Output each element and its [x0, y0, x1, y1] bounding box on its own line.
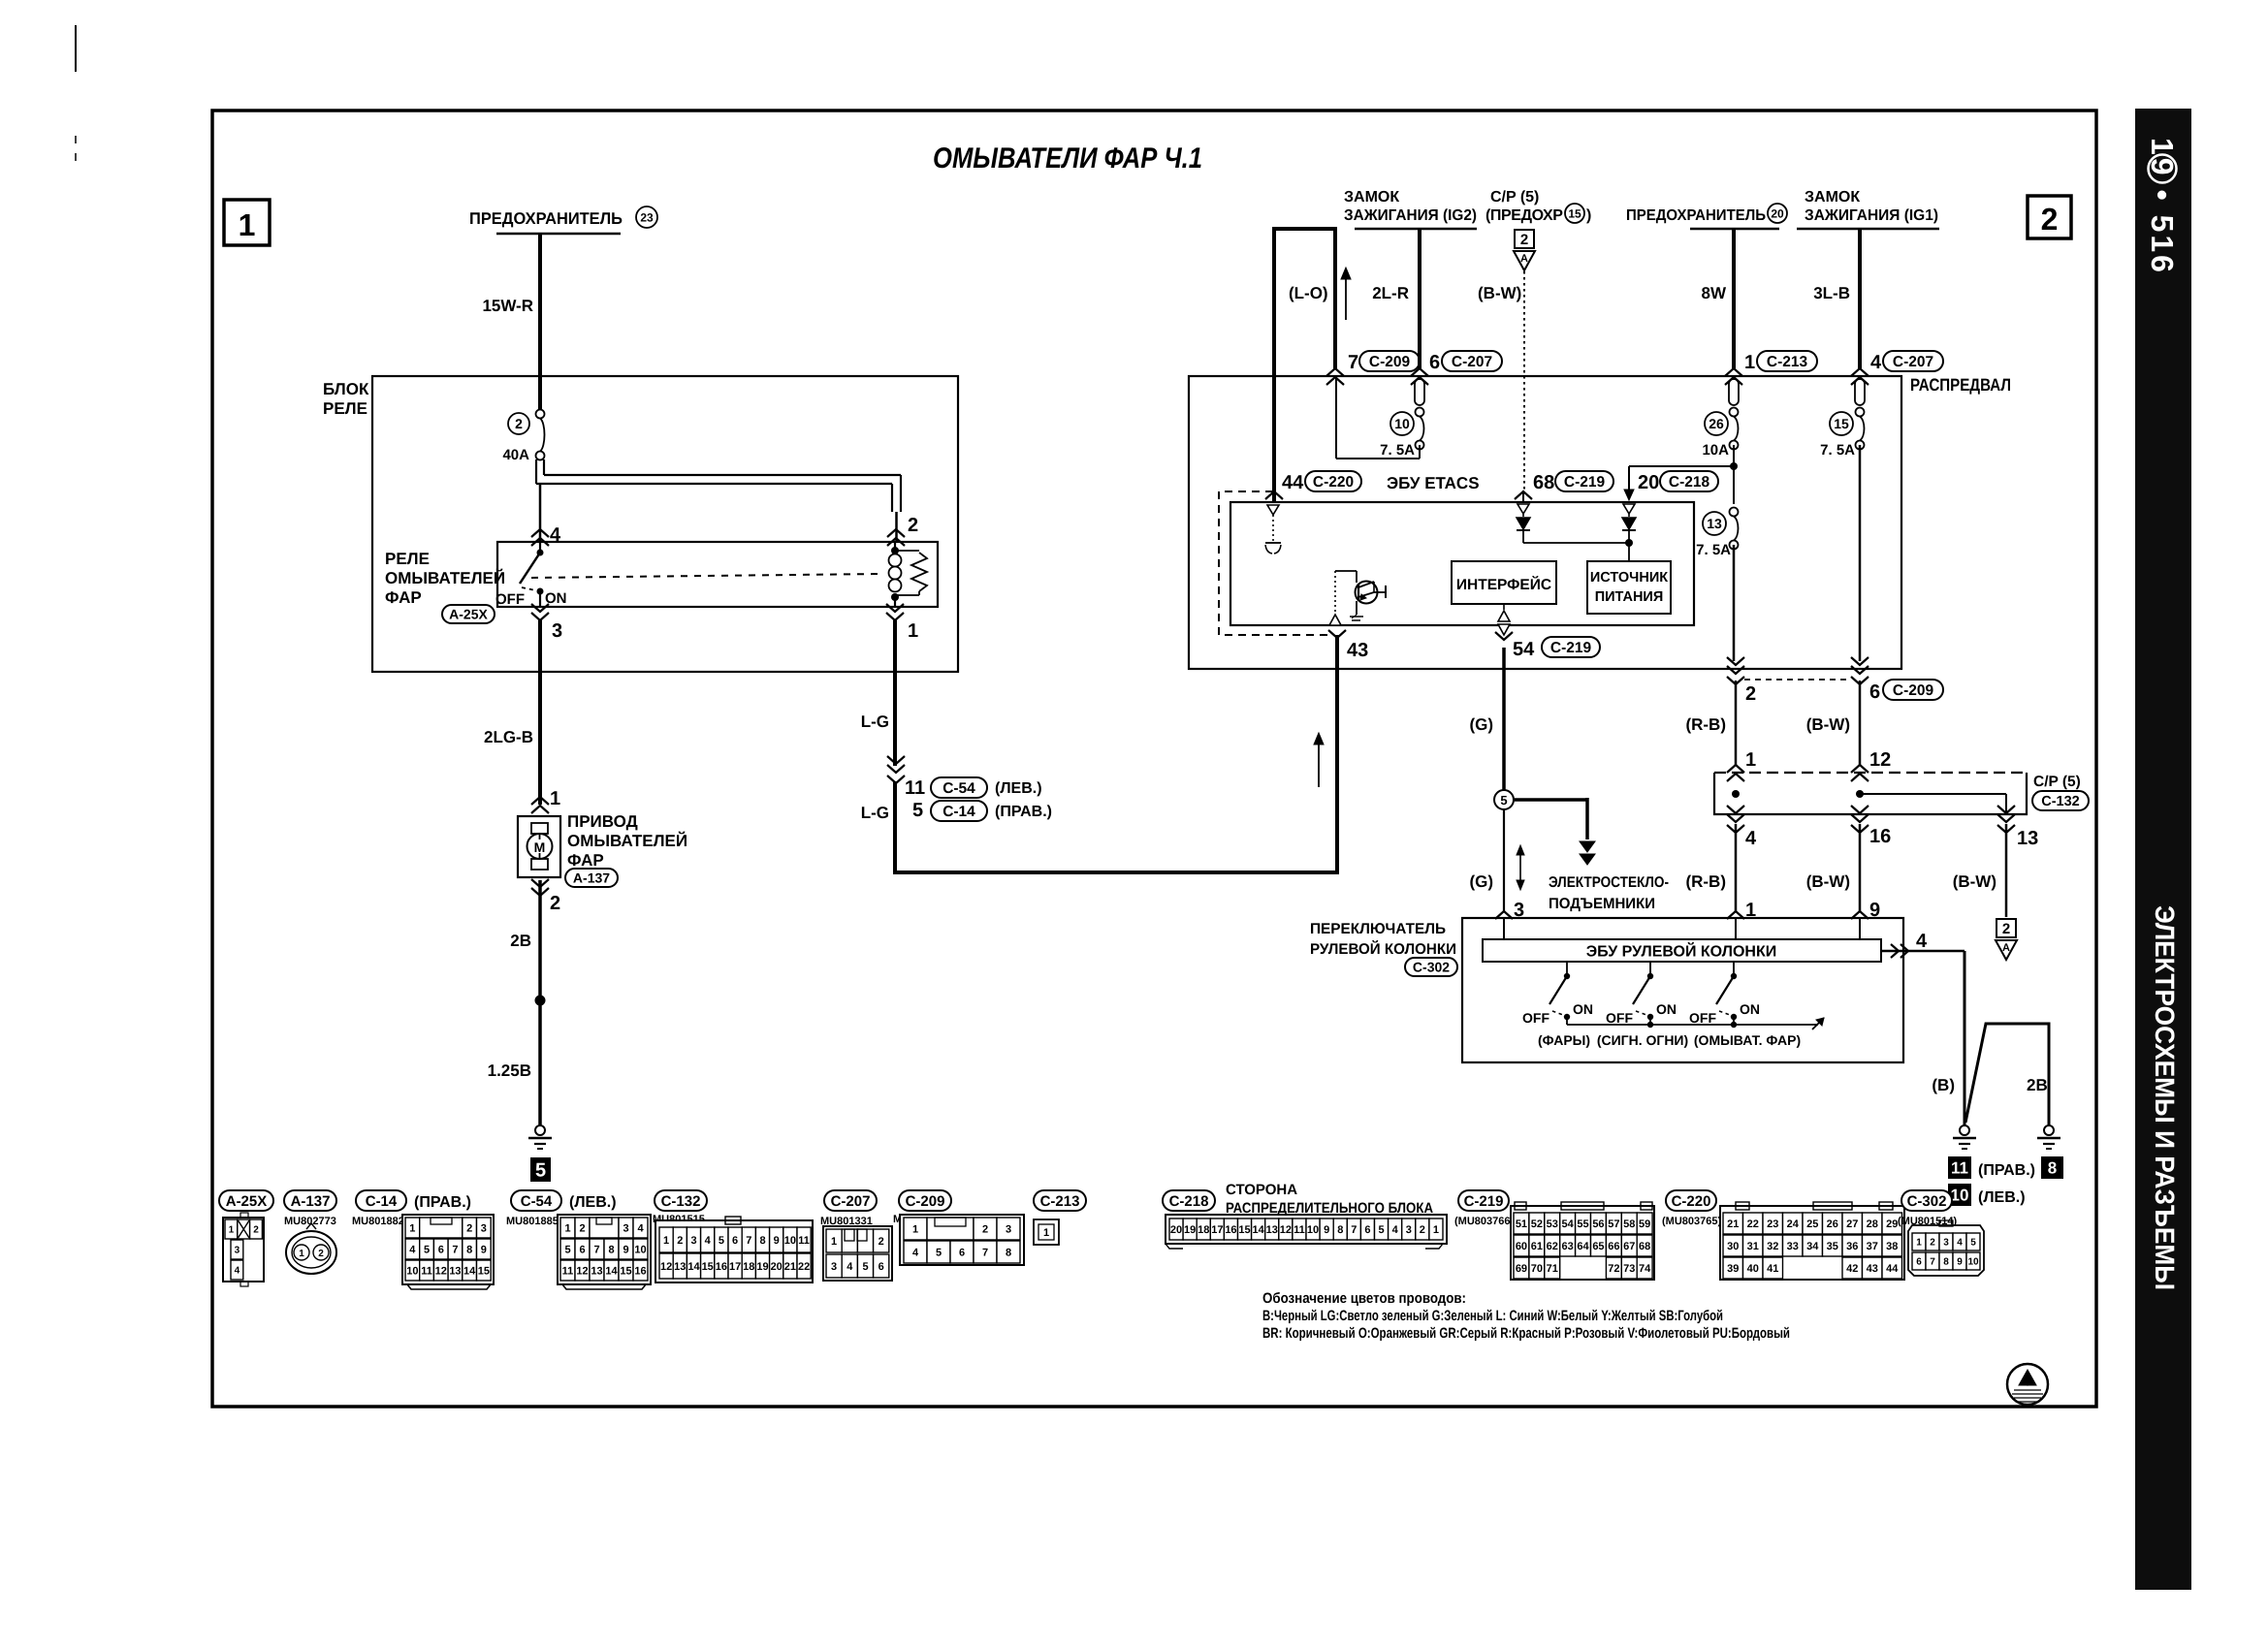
svg-text:3: 3: [1006, 1223, 1011, 1235]
svg-text:ПИТАНИЯ: ПИТАНИЯ: [1595, 589, 1664, 605]
svg-text:(B): (B): [1932, 1076, 1955, 1094]
svg-text:4: 4: [409, 1244, 416, 1255]
sheet number box 1: [224, 200, 270, 245]
svg-text:11: 11: [905, 777, 925, 799]
svg-text:9: 9: [481, 1244, 487, 1255]
ETACS pin 43: [1328, 630, 1368, 661]
svg-text:(СИГН. ОГНИ): (СИГН. ОГНИ): [1597, 1032, 1688, 1048]
svg-text:10: 10: [1967, 1257, 1979, 1268]
legend wire colors: [1262, 1290, 1790, 1342]
connector C-213 label: [1034, 1190, 1086, 1211]
svg-text:3: 3: [690, 1235, 696, 1247]
connector C-302 pinout: [1908, 1220, 1984, 1276]
direction arrow up L-O: [1341, 268, 1351, 320]
svg-text:15: 15: [1834, 416, 1849, 431]
svg-text:29: 29: [1886, 1219, 1898, 1230]
socket capsule 8W: [1729, 379, 1739, 405]
wire L-O hook to pin44: [1274, 229, 1335, 498]
connector C-14 code: [352, 1216, 404, 1227]
svg-text:4: 4: [912, 1247, 919, 1258]
svg-text:3L-B: 3L-B: [1813, 284, 1850, 302]
svg-text:34: 34: [1806, 1241, 1819, 1252]
label C/P 5 ПРЕДОХР 15: [1485, 189, 1591, 224]
svg-text:C-54: C-54: [521, 1193, 553, 1210]
svg-text:(MU803766): (MU803766): [1454, 1216, 1514, 1227]
svg-text:12: 12: [1280, 1224, 1292, 1236]
svg-text:4: 4: [1957, 1238, 1963, 1249]
fuse 2 40A: [502, 410, 544, 464]
svg-text:61: 61: [1531, 1241, 1543, 1252]
relay linkage dashed: [531, 574, 880, 578]
switch common bus: [1567, 1018, 1824, 1029]
svg-text:ON: ON: [1573, 1001, 1593, 1017]
wire 2B bridge: [1965, 1024, 2049, 1125]
wire fuse2 to relay pins doubled feed: [536, 459, 901, 543]
svg-text:BR: Коричневый O:Оранжевый GR:: BR: Коричневый O:Оранжевый GR:Серый R:Кр…: [1262, 1325, 1790, 1342]
svg-text:3: 3: [1406, 1224, 1412, 1236]
sidebar black bar: [2135, 109, 2191, 1590]
node junction 8W branch: [1624, 445, 1738, 504]
wire relay pin3 to motor: [538, 620, 542, 805]
svg-text:C-218: C-218: [1169, 1193, 1209, 1210]
svg-text:РЕЛЕ: РЕЛЕ: [385, 550, 430, 568]
connector C-213 pinout: [1034, 1219, 1059, 1245]
svg-text:6: 6: [579, 1244, 585, 1255]
svg-text:51: 51: [1516, 1219, 1527, 1230]
svg-text:1: 1: [1433, 1224, 1439, 1236]
svg-text:10A: 10A: [1702, 442, 1729, 459]
svg-text:11: 11: [1951, 1159, 1968, 1178]
wire 54 G: [1502, 648, 1506, 791]
switch washer: [1689, 962, 1760, 1026]
svg-text:68: 68: [1639, 1241, 1650, 1252]
svg-text:7: 7: [982, 1247, 988, 1258]
connector A-25X pinout: [223, 1213, 264, 1286]
ETACS input 44 sensor symbol: [1265, 505, 1281, 554]
svg-text:C-209: C-209: [1893, 682, 1934, 699]
svg-text:13: 13: [2017, 828, 2038, 849]
connector C-209 pinout: [900, 1215, 1024, 1265]
svg-text:1: 1: [409, 1222, 415, 1234]
svg-text:18: 18: [1198, 1224, 1209, 1236]
svg-text:C-209: C-209: [906, 1193, 945, 1210]
svg-text:C-132: C-132: [661, 1193, 701, 1210]
wire 3L-B inside box: [1859, 445, 1862, 661]
svg-text:2B: 2B: [510, 932, 531, 950]
relay pin 2: [887, 515, 918, 546]
svg-text:C-132: C-132: [2041, 794, 2080, 809]
svg-text:8: 8: [1337, 1224, 1343, 1236]
svg-text:ПРЕДОХРАНИТЕЛЬ: ПРЕДОХРАНИТЕЛЬ: [1626, 207, 1766, 224]
socket capsule IG1: [1855, 379, 1865, 405]
svg-text:15W-R: 15W-R: [482, 297, 533, 315]
connector A-137 code: [284, 1216, 336, 1227]
pin stubs into ECU: [1504, 918, 1860, 939]
svg-text:РЕЛЕ: РЕЛЕ: [323, 399, 367, 418]
connector C-220 pinout: [1720, 1202, 1904, 1280]
svg-text:OFF: OFF: [1522, 1010, 1549, 1026]
svg-text:17: 17: [729, 1261, 741, 1273]
svg-text:B:Черный LG:Светло зеленый G:З: B:Черный LG:Светло зеленый G:Зеленый L: …: [1262, 1308, 1723, 1324]
wire R-B lower: [1685, 824, 1736, 911]
C-132 pin 4: [1727, 806, 1757, 849]
svg-text:5: 5: [719, 1235, 724, 1247]
svg-text:14: 14: [1253, 1224, 1265, 1236]
svg-text:10: 10: [784, 1235, 796, 1247]
svg-text:3: 3: [235, 1246, 240, 1256]
svg-text:ЗАЖИГАНИЯ (IG1): ЗАЖИГАНИЯ (IG1): [1805, 207, 1938, 224]
svg-text:4: 4: [1870, 352, 1882, 373]
svg-text:MU801885: MU801885: [506, 1216, 559, 1227]
joint connector C-132 box: [1714, 773, 2027, 814]
connector C-219 label: [1458, 1190, 1509, 1211]
svg-text:40A: 40A: [502, 447, 529, 463]
svg-text:63: 63: [1562, 1241, 1574, 1252]
label ЗАМОК ЗАЖИГАНИЯ IG1: [1797, 189, 1939, 229]
svg-text:C-54: C-54: [942, 780, 975, 797]
svg-text:21: 21: [784, 1261, 796, 1273]
svg-text:56: 56: [1592, 1219, 1604, 1230]
label ЭБУ ETACS: [1387, 474, 1480, 492]
svg-text:23: 23: [640, 210, 654, 224]
svg-text:6: 6: [878, 1261, 884, 1273]
svg-text:43: 43: [1347, 640, 1368, 661]
svg-text:8: 8: [608, 1244, 614, 1255]
svg-text:2: 2: [677, 1235, 683, 1247]
svg-text:5: 5: [1500, 793, 1507, 807]
svg-text:66: 66: [1608, 1241, 1619, 1252]
svg-text:A-137: A-137: [573, 870, 610, 886]
left margin scan artifact: [75, 25, 77, 161]
svg-text:OFF: OFF: [1606, 1010, 1633, 1026]
svg-text:5: 5: [1970, 1238, 1976, 1249]
connector C-220 label: [1666, 1190, 1716, 1211]
svg-text:2: 2: [1520, 232, 1528, 248]
inline connector C-54/C-14: [887, 756, 1052, 821]
svg-text:26: 26: [1827, 1219, 1838, 1230]
svg-text:2: 2: [466, 1222, 472, 1234]
label A-25X: [442, 605, 495, 623]
svg-text:(ПРАВ.): (ПРАВ.): [995, 804, 1052, 820]
svg-text:15: 15: [1238, 1224, 1250, 1236]
svg-text:21: 21: [1727, 1219, 1739, 1230]
svg-text:69: 69: [1516, 1263, 1527, 1275]
svg-text:РУЛЕВОЙ КОЛОНКИ: РУЛЕВОЙ КОЛОНКИ: [1310, 939, 1456, 958]
svg-text:ЭЛЕКТРОСХЕМЫ И РАЗЪЕМЫ: ЭЛЕКТРОСХЕМЫ И РАЗЪЕМЫ: [2150, 905, 2180, 1290]
ETACS pin 54 C-219: [1495, 632, 1600, 660]
svg-text:2: 2: [878, 1236, 884, 1248]
svg-text:MU801882: MU801882: [352, 1216, 404, 1227]
svg-text:OFF: OFF: [1689, 1010, 1716, 1026]
fuse 26 10A: [1702, 408, 1738, 459]
svg-text:L-G: L-G: [861, 804, 889, 822]
svg-text:14: 14: [463, 1265, 476, 1277]
label C-302: [1405, 958, 1457, 976]
svg-text:C-209: C-209: [1369, 354, 1411, 370]
svg-text:C-207: C-207: [1452, 354, 1492, 370]
junction splice dot: [535, 996, 546, 1006]
svg-text:): ): [1586, 207, 1591, 224]
svg-text:16: 16: [1869, 826, 1891, 847]
svg-text:19 • 516: 19 • 516: [2145, 138, 2180, 275]
svg-text:1: 1: [1043, 1227, 1049, 1239]
wire 2L-R: [1372, 229, 1420, 368]
connector C-207 pinout: [823, 1226, 892, 1281]
svg-text:5: 5: [1378, 1224, 1384, 1236]
splice circle 5: [1494, 790, 1514, 809]
relay pin 1: [886, 604, 918, 642]
page frame border: [212, 111, 2096, 1407]
wire B to ground: [1932, 951, 1965, 1125]
svg-text:4: 4: [1392, 1224, 1399, 1236]
ground right 11-10: [1953, 1125, 1976, 1149]
label СТОРОНА РАСПРЕДЕЛИТЕЛЬНОГО БЛОКА: [1226, 1182, 1433, 1217]
connector A-137 pinout: [286, 1223, 336, 1274]
svg-text:14: 14: [605, 1265, 618, 1277]
svg-text:19: 19: [756, 1261, 768, 1273]
connector C-132 label: [655, 1190, 707, 1211]
connector C-218 label: [1163, 1190, 1215, 1211]
svg-text:31: 31: [1747, 1241, 1759, 1252]
svg-text:ОМЫВАТЕЛЕЙ: ОМЫВАТЕЛЕЙ: [385, 568, 505, 587]
svg-text:C-302: C-302: [1413, 960, 1450, 975]
svg-text:ФАР: ФАР: [567, 851, 604, 870]
dashed link C-209: [1744, 679, 1851, 681]
svg-text:ПРЕДОХРАНИТЕЛЬ: ПРЕДОХРАНИТЕЛЬ: [469, 209, 623, 228]
svg-text:5: 5: [535, 1160, 546, 1182]
svg-text:10: 10: [406, 1265, 418, 1277]
svg-text:10: 10: [1951, 1187, 1969, 1205]
svg-text:2L-R: 2L-R: [1372, 284, 1409, 302]
wire 2B to ground: [510, 880, 540, 1125]
column switch pin 1: [1727, 900, 1756, 921]
label ЭЛЕКТРОСТЕКЛОПОДЪЕМНИКИ: [1549, 874, 1669, 912]
svg-text:26: 26: [1709, 416, 1724, 431]
svg-text:ЗАМОК: ЗАМОК: [1805, 189, 1860, 206]
svg-text:15: 15: [478, 1265, 490, 1277]
svg-text:(ПРАВ.): (ПРАВ.): [414, 1194, 471, 1211]
sidebar page number 19-516: [2145, 138, 2180, 275]
switch headlights: [1522, 962, 1593, 1026]
svg-text:5: 5: [424, 1244, 430, 1255]
svg-text:37: 37: [1867, 1241, 1878, 1252]
svg-text:СТОРОНА: СТОРОНА: [1226, 1182, 1297, 1198]
ETACS solid box: [1230, 502, 1694, 625]
svg-text:1: 1: [912, 1223, 918, 1235]
svg-text:4: 4: [705, 1235, 712, 1247]
svg-text:16: 16: [716, 1261, 727, 1273]
wire 8W below fuse13: [1733, 545, 1736, 661]
svg-text:41: 41: [1767, 1263, 1778, 1275]
column switch pin 9: [1851, 900, 1880, 921]
svg-text:20: 20: [771, 1261, 783, 1273]
connector C-54 label: [511, 1190, 617, 1211]
svg-text:1: 1: [831, 1236, 837, 1248]
svg-text:1: 1: [1916, 1238, 1922, 1249]
svg-text:A-25X: A-25X: [226, 1193, 268, 1210]
svg-text:72: 72: [1608, 1263, 1619, 1275]
svg-text:12: 12: [576, 1265, 588, 1277]
label fuse ПРЕДОХРАНИТЕЛЬ 23: [469, 206, 657, 234]
fuse 10 7.5A: [1380, 408, 1423, 459]
svg-text:1: 1: [239, 207, 256, 242]
svg-text:10: 10: [1307, 1224, 1319, 1236]
svg-text:7. 5A: 7. 5A: [1820, 442, 1855, 459]
connector C-207 label: [824, 1190, 877, 1211]
svg-text:68: 68: [1533, 472, 1554, 493]
interface box ИНТЕРФЕЙС: [1452, 561, 1556, 604]
relay block БЛОК РЕЛЕ box: [323, 376, 958, 672]
svg-text:(B-W): (B-W): [1953, 872, 1996, 891]
svg-text:2: 2: [1930, 1238, 1935, 1249]
svg-text:ЭЛЕКТРОСТЕКЛО-: ЭЛЕКТРОСТЕКЛО-: [1549, 874, 1669, 891]
svg-text:43: 43: [1867, 1263, 1878, 1275]
svg-text:(ПРАВ.): (ПРАВ.): [1978, 1162, 2035, 1179]
wire fuse10 to pin7: [1336, 378, 1420, 459]
svg-text:7: 7: [1930, 1257, 1935, 1268]
connector A-137 label: [284, 1190, 336, 1211]
svg-text:7. 5A: 7. 5A: [1696, 542, 1731, 558]
svg-text:7: 7: [452, 1244, 458, 1255]
svg-text:1: 1: [550, 788, 560, 809]
connector C-218 pinout: [1166, 1215, 1447, 1249]
svg-text:8: 8: [466, 1244, 472, 1255]
svg-text:64: 64: [1577, 1241, 1589, 1252]
svg-text:5: 5: [862, 1261, 868, 1273]
svg-text:3: 3: [831, 1261, 837, 1273]
svg-text:8: 8: [1943, 1257, 1949, 1268]
C-132 pin 12: [1851, 749, 1891, 781]
svg-text:(ЛЕВ.): (ЛЕВ.): [1978, 1189, 2026, 1206]
svg-text:5: 5: [912, 800, 923, 821]
connector A-25X label: [219, 1190, 273, 1211]
svg-text:24: 24: [1787, 1219, 1800, 1230]
fuse 13 7.5A: [1696, 508, 1738, 559]
svg-text:L-G: L-G: [861, 712, 889, 731]
svg-text:6: 6: [732, 1235, 738, 1247]
svg-text:ЗАЖИГАНИЯ (IG2): ЗАЖИГАНИЯ (IG2): [1344, 207, 1477, 224]
connector C-219 pinout: [1511, 1202, 1654, 1280]
relay A-25X box: [497, 542, 938, 607]
svg-text:6: 6: [438, 1244, 444, 1255]
svg-text:42: 42: [1846, 1263, 1858, 1275]
svg-text:C/P (5): C/P (5): [1490, 189, 1539, 206]
svg-text:2: 2: [318, 1249, 324, 1259]
connector C-207 code: [820, 1216, 873, 1227]
C-132 pin 16: [1851, 806, 1891, 847]
svg-text:40: 40: [1747, 1263, 1759, 1275]
svg-text:32: 32: [1767, 1241, 1778, 1252]
svg-text:1: 1: [299, 1249, 304, 1259]
connector C-54 pinout: [558, 1215, 651, 1289]
connector C-14 pinout: [402, 1215, 494, 1289]
svg-text:28: 28: [1867, 1219, 1878, 1230]
connector pin 1 C-213: [1725, 351, 1817, 385]
ground number 11: [1948, 1156, 2035, 1179]
svg-text:13: 13: [449, 1265, 461, 1277]
svg-text:C-213: C-213: [1767, 354, 1808, 370]
svg-text:70: 70: [1531, 1263, 1543, 1275]
svg-text:3: 3: [623, 1222, 628, 1234]
svg-text:C-207: C-207: [1893, 354, 1933, 370]
svg-text:7. 5A: 7. 5A: [1380, 442, 1415, 459]
svg-text:67: 67: [1623, 1241, 1635, 1252]
svg-text:(R-B): (R-B): [1685, 715, 1726, 734]
svg-text:(ФАРЫ): (ФАРЫ): [1538, 1032, 1590, 1048]
direction arrow updown: [1517, 845, 1524, 890]
svg-text:12: 12: [1869, 749, 1891, 771]
svg-text:(B-W): (B-W): [1478, 284, 1521, 302]
offpage connector 2A bottom: [1996, 919, 2017, 960]
svg-text:53: 53: [1547, 1219, 1558, 1230]
svg-text:2: 2: [1420, 1224, 1425, 1236]
svg-text:3: 3: [1943, 1238, 1949, 1249]
wire 44 to ETACS: [1272, 378, 1276, 502]
title ОМЫВАТЕЛИ ФАР Ч.1: [933, 142, 1202, 174]
svg-text:38: 38: [1886, 1241, 1898, 1252]
svg-text:(ОМЫВАТ. ФАР): (ОМЫВАТ. ФАР): [1694, 1032, 1801, 1048]
relay pin 3: [531, 604, 562, 642]
junction block pin 6 C-209: [1851, 657, 1943, 703]
label ПРИВОД ОМЫВАТЕЛЕЙ ФАР: [567, 812, 687, 870]
power source box ИСТОЧНИК ПИТАНИЯ: [1587, 561, 1671, 614]
svg-text:12: 12: [435, 1265, 447, 1277]
svg-text:C-14: C-14: [366, 1193, 398, 1210]
svg-text:1: 1: [229, 1225, 235, 1236]
svg-text:(G): (G): [1469, 872, 1493, 891]
svg-text:1.25B: 1.25B: [488, 1061, 531, 1080]
svg-text:55: 55: [1577, 1219, 1588, 1230]
connector C-302 label bottom: [1901, 1190, 1952, 1211]
svg-text:C-14: C-14: [942, 804, 975, 820]
svg-text:10: 10: [1394, 416, 1410, 431]
svg-text:20: 20: [1170, 1224, 1182, 1236]
C-132 internal joints: [1732, 790, 2006, 814]
label РЕЛЕ ОМЫВАТЕЛЕЙ ФАР: [385, 550, 505, 607]
svg-text:M: M: [534, 839, 546, 855]
svg-text:A-25X: A-25X: [449, 607, 488, 622]
connector C-220 code: [1662, 1216, 1721, 1227]
connector C-209 code: [893, 1214, 945, 1225]
svg-text:15: 15: [620, 1265, 631, 1277]
svg-text:ЗАМОК: ЗАМОК: [1344, 189, 1399, 206]
wire 1.25B label: [488, 1061, 531, 1080]
svg-text:(MU803765): (MU803765): [1662, 1216, 1721, 1227]
svg-text:(B-W): (B-W): [1806, 715, 1850, 734]
svg-text:(L-O): (L-O): [1289, 284, 1328, 302]
wire B-W dotted: [1478, 271, 1524, 491]
publisher logo: [2007, 1364, 2048, 1405]
svg-text:C-220: C-220: [1672, 1193, 1711, 1210]
label L-G lower: [861, 804, 889, 822]
ground number 10: [1948, 1184, 2026, 1206]
sidebar section title ЭЛЕКТРОСХЕМЫ И РАЗЪЕМЫ: [2150, 905, 2180, 1290]
svg-text:ОМЫВАТЕЛЕЙ: ОМЫВАТЕЛЕЙ: [567, 831, 687, 850]
svg-text:A: A: [1520, 253, 1528, 265]
svg-text:39: 39: [1727, 1263, 1739, 1275]
ETACS pin 68 entry: [1515, 491, 1532, 502]
svg-text:17: 17: [1211, 1224, 1223, 1236]
svg-text:4: 4: [235, 1266, 240, 1277]
svg-text:11: 11: [1294, 1224, 1305, 1236]
label ПЕРЕКЛЮЧАТЕЛЬ РУЛЕВОЙ КОЛОНКИ: [1310, 921, 1456, 958]
wire L-G to ETACS 43: [893, 635, 1339, 872]
svg-text:33: 33: [1787, 1241, 1799, 1252]
ground 8: [2037, 1125, 2060, 1149]
wire 2LG-B label: [484, 728, 533, 746]
wire to power windows: [1514, 798, 1595, 865]
svg-text:44: 44: [1886, 1263, 1899, 1275]
